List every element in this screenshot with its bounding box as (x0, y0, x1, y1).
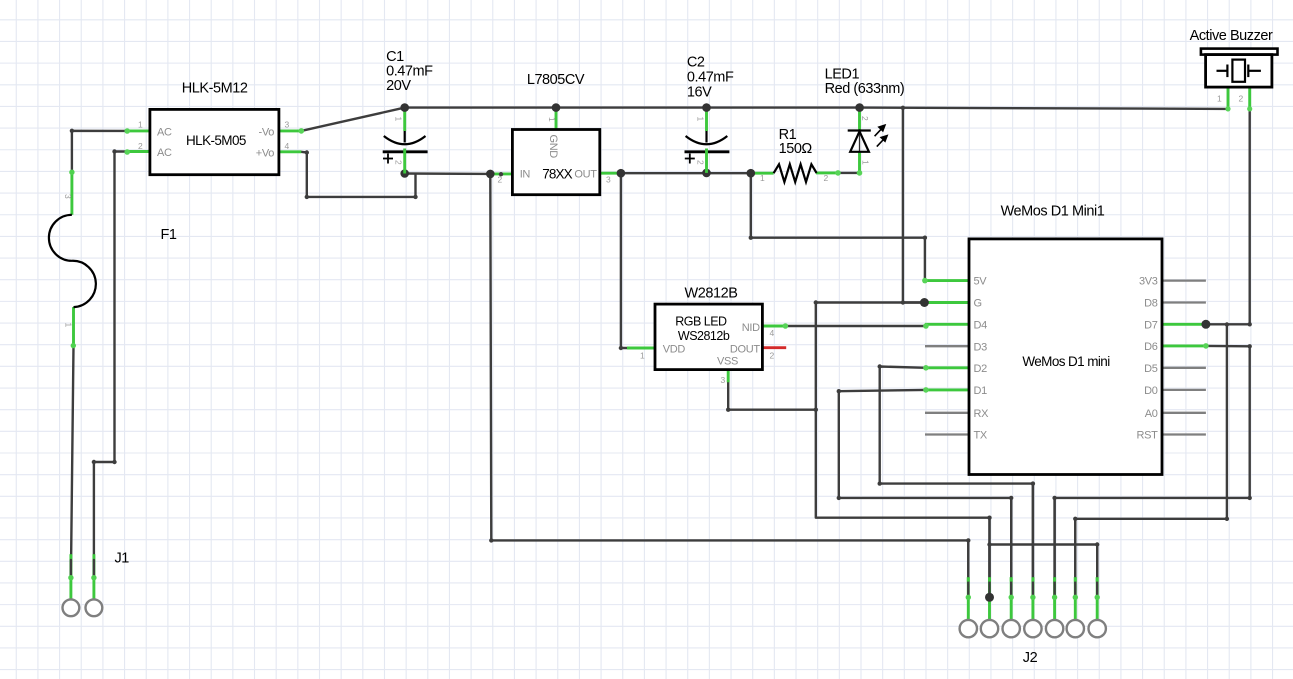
svg-text:2: 2 (770, 351, 775, 361)
svg-text:1: 1 (64, 323, 74, 328)
svg-text:G: G (974, 298, 982, 310)
svg-text:1: 1 (640, 351, 645, 361)
svg-text:5V: 5V (974, 276, 988, 288)
svg-text:HLK-5M12: HLK-5M12 (182, 81, 248, 97)
svg-text:VSS: VSS (717, 356, 738, 368)
svg-text:2: 2 (824, 173, 829, 183)
svg-text:RST: RST (1137, 430, 1159, 442)
svg-text:L7805CV: L7805CV (527, 72, 585, 88)
svg-text:78XX: 78XX (542, 166, 572, 181)
svg-text:AC: AC (157, 126, 172, 138)
svg-text:IN: IN (520, 169, 531, 181)
svg-text:D7: D7 (1144, 319, 1158, 331)
svg-text:3: 3 (606, 175, 611, 185)
svg-text:F1: F1 (161, 227, 177, 243)
svg-text:150Ω: 150Ω (779, 141, 813, 157)
svg-text:Active Buzzer: Active Buzzer (1190, 28, 1273, 44)
svg-text:1: 1 (547, 117, 557, 122)
svg-text:1: 1 (760, 173, 765, 183)
svg-text:2: 2 (498, 175, 503, 185)
svg-text:WeMos D1 Mini1: WeMos D1 Mini1 (1001, 204, 1105, 220)
svg-text:2: 2 (860, 116, 870, 121)
svg-text:Red (633nm): Red (633nm) (825, 81, 905, 97)
svg-text:3: 3 (721, 375, 726, 385)
svg-text:1: 1 (695, 117, 705, 122)
svg-text:+Vo: +Vo (256, 147, 274, 159)
svg-text:HLK-5M05: HLK-5M05 (186, 133, 246, 148)
svg-text:A0: A0 (1145, 408, 1158, 420)
svg-text:3: 3 (285, 120, 290, 130)
svg-text:D3: D3 (974, 341, 988, 353)
svg-text:RGB LED: RGB LED (675, 315, 727, 329)
svg-text:1: 1 (138, 120, 143, 130)
svg-text:2: 2 (138, 141, 143, 151)
svg-text:0.47mF: 0.47mF (687, 70, 734, 86)
svg-text:VDD: VDD (663, 344, 686, 356)
svg-text:1: 1 (861, 160, 871, 165)
svg-text:D1: D1 (974, 385, 988, 397)
svg-text:16V: 16V (687, 85, 712, 101)
svg-text:-Vo: -Vo (259, 126, 275, 138)
svg-text:4: 4 (285, 141, 290, 151)
svg-text:2: 2 (1239, 94, 1244, 104)
svg-text:W2812B: W2812B (685, 286, 738, 302)
svg-text:DOUT: DOUT (730, 344, 760, 356)
svg-text:J2: J2 (1023, 650, 1038, 666)
svg-text:GND: GND (547, 135, 559, 159)
svg-text:D6: D6 (1144, 341, 1158, 353)
svg-text:20V: 20V (386, 78, 411, 94)
svg-text:3V3: 3V3 (1139, 276, 1158, 288)
svg-text:4: 4 (770, 328, 775, 338)
svg-text:3: 3 (63, 194, 73, 199)
svg-text:D5: D5 (1144, 363, 1158, 375)
svg-text:RX: RX (974, 408, 990, 420)
svg-text:D8: D8 (1144, 298, 1158, 310)
svg-text:WeMos D1 mini: WeMos D1 mini (1022, 354, 1110, 369)
svg-text:C2: C2 (687, 55, 705, 71)
svg-text:TX: TX (974, 430, 988, 442)
svg-text:1: 1 (1217, 94, 1222, 104)
svg-text:2: 2 (394, 160, 404, 165)
svg-text:2: 2 (695, 160, 705, 165)
svg-text:J1: J1 (115, 551, 130, 567)
svg-text:1: 1 (394, 117, 404, 122)
svg-text:NID: NID (742, 322, 760, 334)
svg-text:WS2812b: WS2812b (678, 329, 730, 343)
svg-text:D2: D2 (974, 363, 988, 375)
svg-text:OUT: OUT (574, 169, 597, 181)
svg-text:D0: D0 (1144, 385, 1158, 397)
svg-text:D4: D4 (974, 319, 988, 331)
svg-text:AC: AC (157, 147, 172, 159)
